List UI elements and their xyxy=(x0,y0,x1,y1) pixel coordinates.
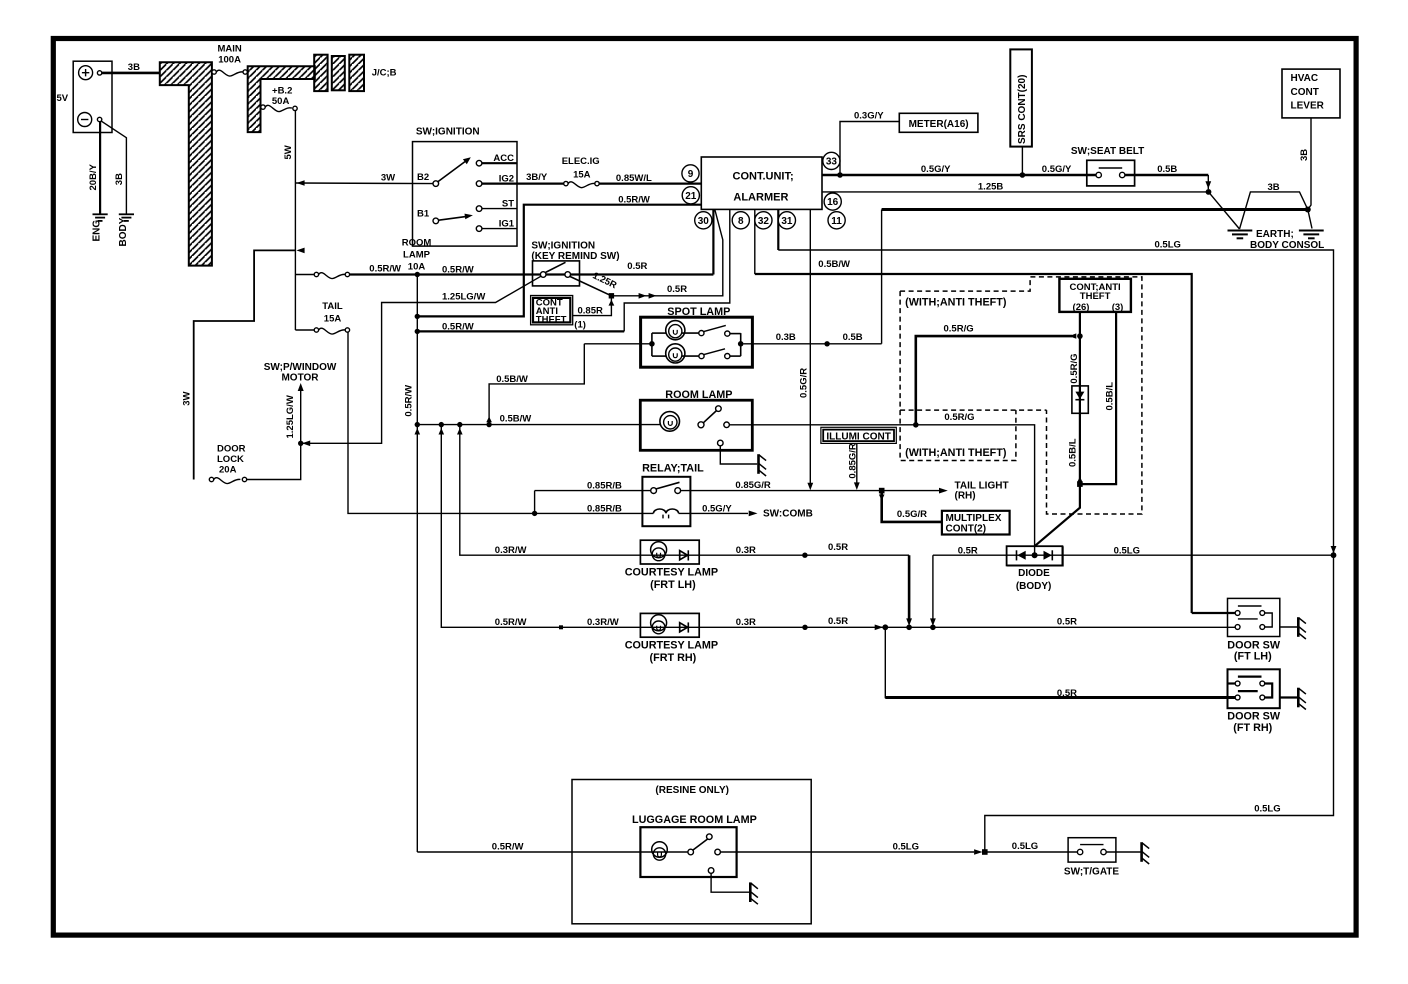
wire 20B/Y to ENG ground xyxy=(99,122,101,214)
ground sw t/gate xyxy=(1142,842,1150,864)
svg-text:DOOR SW: DOOR SW xyxy=(1227,711,1281,723)
svg-text:1.25LG/W: 1.25LG/W xyxy=(442,292,485,303)
svg-text:0.5LG: 0.5LG xyxy=(1114,545,1140,556)
svg-text:0.85R/B: 0.85R/B xyxy=(587,503,622,514)
svg-text:3W: 3W xyxy=(381,173,395,184)
pin stubs bottom xyxy=(754,209,756,274)
svg-text:IG2: IG2 xyxy=(499,174,514,185)
svg-text:33: 33 xyxy=(826,156,838,167)
diode unit DIODE BODY xyxy=(1007,546,1063,565)
wire tail fuse to relay coil 0.85R/B xyxy=(348,332,653,513)
svg-text:0.5R: 0.5R xyxy=(958,545,978,556)
svg-text:0.5G/Y: 0.5G/Y xyxy=(921,164,951,175)
lamp COURTESY LAMP FRT LH xyxy=(640,540,699,564)
svg-text:0.5LG: 0.5LG xyxy=(1012,841,1038,852)
svg-text:10A: 10A xyxy=(408,262,426,273)
fuse +B.2 50A xyxy=(261,105,265,109)
ground room lamp xyxy=(759,454,767,476)
svg-text:(BODY): (BODY) xyxy=(1016,581,1052,592)
svg-text:SRS CONT(20): SRS CONT(20) xyxy=(1017,75,1028,144)
svg-text:LEVER: LEVER xyxy=(1291,101,1325,112)
pin 16 xyxy=(824,193,841,210)
wire 0.5B/W pin 32 to door sw xyxy=(755,274,1192,613)
svg-text:11: 11 xyxy=(831,216,842,227)
svg-text:COURTESY LAMP: COURTESY LAMP xyxy=(625,566,718,578)
wire 1.25R diagonal xyxy=(570,276,612,295)
svg-text:LOCK: LOCK xyxy=(217,454,244,465)
wire 1.25LG/W to key remind sw xyxy=(301,276,541,443)
svg-text:CONT.UNIT;: CONT.UNIT; xyxy=(733,171,794,183)
svg-text:0.5R/W: 0.5R/W xyxy=(618,195,650,206)
wire 0.5R/G thick L xyxy=(916,336,1072,425)
wire 0.3G/Y to meter xyxy=(840,122,899,176)
switch SW;T/GATE xyxy=(1068,838,1116,862)
svg-text:(RESINE ONLY): (RESINE ONLY) xyxy=(655,785,729,796)
wire 0.5R/W to pin 8 xyxy=(415,329,420,334)
svg-text:ALARMER: ALARMER xyxy=(733,192,788,204)
svg-text:SW:COMB: SW:COMB xyxy=(763,509,813,520)
module SRS CONT(20) xyxy=(1010,49,1032,146)
svg-text:B2: B2 xyxy=(417,172,429,183)
fuse ROOM LAMP 10A xyxy=(295,274,314,276)
svg-text:0.85G/R: 0.85G/R xyxy=(847,443,858,479)
svg-text:0.5R: 0.5R xyxy=(627,261,647,272)
wire 0.5R/W vertical feed xyxy=(416,275,418,853)
svg-text:(FT LH): (FT LH) xyxy=(1234,651,1272,663)
svg-text:0.5R/W: 0.5R/W xyxy=(495,617,527,628)
node 0.5LG right xyxy=(1331,552,1337,558)
svg-text:ST: ST xyxy=(502,199,514,210)
svg-text:31: 31 xyxy=(781,216,793,227)
svg-text:0.3B: 0.3B xyxy=(776,332,796,343)
unit CONT.UNIT ALARMER xyxy=(701,157,822,209)
svg-text:ELEC.IG: ELEC.IG xyxy=(562,156,600,167)
svg-text:CONT: CONT xyxy=(1291,87,1319,98)
svg-text:20B/Y: 20B/Y xyxy=(88,163,99,190)
wire 3W to ignition B2 xyxy=(295,182,435,185)
wire 0.85R xyxy=(572,296,612,316)
svg-text:LUGGAGE ROOM LAMP: LUGGAGE ROOM LAMP xyxy=(632,814,757,826)
svg-text:COURTESY LAMP: COURTESY LAMP xyxy=(625,639,718,651)
svg-text:DOOR: DOOR xyxy=(217,444,246,455)
svg-text:SW;IGNITION: SW;IGNITION xyxy=(416,127,480,138)
svg-text:3B: 3B xyxy=(1268,182,1280,193)
svg-text:16: 16 xyxy=(827,197,839,208)
wire to t/gate xyxy=(985,851,1078,853)
node 0.85R junction xyxy=(609,293,614,298)
fusible link bus 2 xyxy=(248,66,315,132)
battery plus terminal xyxy=(79,66,93,80)
earth right BODY CONSOL xyxy=(1308,210,1312,229)
svg-text:(1): (1) xyxy=(574,319,586,330)
wire to courtesy LH row xyxy=(460,425,909,556)
pin 8 xyxy=(732,212,749,229)
node multiplex junction xyxy=(879,488,885,494)
svg-text:ENG: ENG xyxy=(92,220,103,242)
fuse ELEC.IG 15A xyxy=(564,181,568,185)
svg-text:1.25LG/W: 1.25LG/W xyxy=(285,395,296,438)
lamp COURTESY LAMP FRT RH xyxy=(640,613,699,637)
earth left xyxy=(1209,192,1240,229)
wire 0.5B/W to spot lamp xyxy=(489,344,584,425)
relay coil xyxy=(653,509,678,513)
module MULTIPLEX CONT(2) xyxy=(942,511,1010,535)
svg-text:SW;SEAT BELT: SW;SEAT BELT xyxy=(1071,146,1144,157)
svg-text:0.85W/L: 0.85W/L xyxy=(616,173,652,184)
svg-text:3B: 3B xyxy=(1299,149,1310,161)
svg-text:LAMP: LAMP xyxy=(403,250,431,261)
svg-text:3B: 3B xyxy=(114,173,125,185)
wire 3B hvac xyxy=(1308,118,1311,210)
svg-text:1.25B: 1.25B xyxy=(978,182,1003,193)
svg-text:0.3R/W: 0.3R/W xyxy=(587,617,619,628)
svg-text:0.5G/R: 0.5G/R xyxy=(897,509,927,520)
svg-text:MAIN: MAIN xyxy=(217,44,241,55)
svg-text:MULTIPLEX: MULTIPLEX xyxy=(946,513,1002,524)
wire 0.85W/L to pin 9 xyxy=(599,183,701,185)
wire battery to bus 3B xyxy=(102,72,160,75)
wire LH row drop to RH row xyxy=(908,555,911,621)
wire 5W vertical xyxy=(294,111,296,330)
svg-text:BODY CONSOL: BODY CONSOL xyxy=(1250,240,1324,251)
svg-text:0.5R: 0.5R xyxy=(1057,688,1077,699)
svg-text:METER(A16): METER(A16) xyxy=(909,119,969,130)
svg-text:THEFT: THEFT xyxy=(1080,291,1111,302)
svg-text:0.5G/Y: 0.5G/Y xyxy=(1042,164,1072,175)
svg-text:0.85G/R: 0.85G/R xyxy=(735,480,771,491)
svg-text:0.5R: 0.5R xyxy=(667,284,687,295)
spot lamp lower bulb + switch xyxy=(652,355,666,357)
pin 9 xyxy=(682,165,699,182)
wire 0.5LG pin 31 xyxy=(778,250,1333,852)
svg-text:0.5G/R: 0.5G/R xyxy=(799,368,810,398)
svg-text:J/C;B: J/C;B xyxy=(372,68,397,79)
svg-text:0.3R/W: 0.3R/W xyxy=(495,545,527,556)
wire pin 3 down xyxy=(1080,312,1116,484)
ground luggage room lamp xyxy=(750,882,758,904)
wire 0.5R to door sw ft lh xyxy=(885,626,1235,628)
svg-text:0.3R: 0.3R xyxy=(736,617,756,628)
svg-text:0.5B/L: 0.5B/L xyxy=(1105,382,1116,411)
fuse DOOR LOCK 20A xyxy=(209,477,213,481)
module HVAC CONT LEVER xyxy=(1282,69,1340,118)
svg-text:100A: 100A xyxy=(218,55,241,66)
svg-text:(26): (26) xyxy=(1073,302,1090,313)
wire 1.25B pin 16 xyxy=(822,191,1209,193)
svg-text:0.5R/W: 0.5R/W xyxy=(492,841,524,852)
svg-text:0.5B/W: 0.5B/W xyxy=(818,259,850,270)
svg-text:CONT(2): CONT(2) xyxy=(946,523,987,534)
module CONT;ANTI THEFT 26 3 xyxy=(1059,279,1131,312)
wire 0.5R/W pin 21 xyxy=(417,205,701,317)
wire 0.3B 0.5B xyxy=(744,343,882,345)
svg-text:(3): (3) xyxy=(1112,302,1124,313)
module METER(A16) xyxy=(899,113,978,132)
pin 21 xyxy=(682,187,699,204)
svg-text:0.85R/B: 0.85R/B xyxy=(587,481,622,492)
svg-text:B1: B1 xyxy=(417,209,430,220)
fusible link bus 1 xyxy=(160,62,212,265)
svg-text:3B: 3B xyxy=(128,62,140,73)
wire door lock fuse output xyxy=(247,443,301,479)
svg-text:IG1: IG1 xyxy=(499,219,515,230)
wire to courtesy RH row xyxy=(441,425,885,628)
ground ENG xyxy=(93,214,108,221)
node p/window junction xyxy=(298,441,303,446)
svg-text:30: 30 xyxy=(698,216,710,227)
svg-text:15A: 15A xyxy=(573,169,591,180)
switch DOOR SW FT LH xyxy=(1192,612,1236,614)
svg-text:ILLUMI CONT: ILLUMI CONT xyxy=(826,431,890,442)
svg-text:0.5R: 0.5R xyxy=(828,616,848,627)
svg-text:SW;IGNITION: SW;IGNITION xyxy=(531,240,595,251)
svg-text:0.5LG: 0.5LG xyxy=(893,841,919,852)
pin 31 xyxy=(778,212,795,229)
svg-text:0.5B: 0.5B xyxy=(1157,164,1177,175)
ground door sw ft rh xyxy=(1298,688,1306,710)
diode anti-theft xyxy=(1072,386,1088,413)
svg-text:0.5R/G: 0.5R/G xyxy=(944,323,974,334)
svg-text:SW;T/GATE: SW;T/GATE xyxy=(1064,867,1120,878)
svg-text:0.5B/L: 0.5B/L xyxy=(1067,438,1078,467)
svg-text:THEFT: THEFT xyxy=(536,314,567,325)
svg-text:(WITH;ANTI THEFT): (WITH;ANTI THEFT) xyxy=(905,447,1007,459)
svg-text:TAIL: TAIL xyxy=(322,301,343,312)
wire 3W branch to door lock fuse xyxy=(296,248,304,254)
ground BODY xyxy=(119,214,134,221)
battery minus terminal xyxy=(78,113,92,127)
wire 0.5R from key remind junction to cont unit xyxy=(611,209,722,295)
lamp unit LUGGAGE ROOM LAMP xyxy=(572,780,811,924)
svg-text:(FRT RH): (FRT RH) xyxy=(650,652,697,664)
svg-text:SW;P/WINDOW: SW;P/WINDOW xyxy=(264,362,337,373)
svg-text:20A: 20A xyxy=(219,465,237,476)
svg-text:DIODE: DIODE xyxy=(1018,568,1050,579)
junction block J/C;B xyxy=(314,55,327,91)
svg-text:RELAY;TAIL: RELAY;TAIL xyxy=(642,463,704,475)
svg-text:(FRT LH): (FRT LH) xyxy=(650,579,696,591)
svg-text:(FT RH): (FT RH) xyxy=(1233,722,1272,734)
svg-text:0.5B/W: 0.5B/W xyxy=(496,374,528,385)
svg-text:0.5R: 0.5R xyxy=(1057,616,1077,627)
wire 0.5G/Y from pin 33 xyxy=(822,174,1096,177)
svg-text:(RH): (RH) xyxy=(955,491,976,502)
svg-text:0.3R: 0.3R xyxy=(736,545,756,556)
wire to diode body xyxy=(1035,484,1080,546)
wire 0.5R/W fuse row xyxy=(350,273,714,275)
fuse TAIL 15A xyxy=(295,329,314,331)
svg-text:0.5R: 0.5R xyxy=(828,542,848,553)
wire 0.5B xyxy=(1125,174,1208,177)
svg-text:8: 8 xyxy=(738,216,744,227)
svg-text:EARTH;: EARTH; xyxy=(1256,229,1294,240)
svg-text:5W: 5W xyxy=(283,145,294,159)
svg-text:3W: 3W xyxy=(181,392,192,406)
svg-text:(WITH;ANTI THEFT): (WITH;ANTI THEFT) xyxy=(905,296,1007,308)
svg-text:0.5R/W: 0.5R/W xyxy=(442,265,474,276)
arrow 0.5G/R pin 11 end xyxy=(807,483,813,491)
module CONT ANTI THEFT xyxy=(531,296,573,325)
svg-text:0.3G/Y: 0.3G/Y xyxy=(854,111,884,122)
pin 11 xyxy=(828,212,845,229)
svg-text:5V: 5V xyxy=(57,93,69,104)
arrow tail light xyxy=(939,488,948,494)
pin 33 xyxy=(823,152,840,169)
ground door sw ft lh xyxy=(1298,617,1306,639)
pin 32 xyxy=(755,212,772,229)
wire 0.5R to pin 30 xyxy=(712,209,714,274)
svg-text:21: 21 xyxy=(685,191,697,202)
svg-text:15A: 15A xyxy=(324,314,342,325)
svg-text:BODY: BODY xyxy=(118,217,129,246)
wire 3B/Y xyxy=(517,183,564,185)
svg-text:0.5R/W: 0.5R/W xyxy=(369,264,401,275)
wire 0.5R to door sw ft rh xyxy=(885,627,1235,697)
svg-text:0.5LG: 0.5LG xyxy=(1155,239,1181,250)
svg-text:32: 32 xyxy=(758,216,770,227)
svg-text:ACC: ACC xyxy=(493,153,514,164)
svg-text:0.5B/W: 0.5B/W xyxy=(500,414,532,425)
switch DOOR SW FT RH xyxy=(1228,669,1280,708)
node row 0.5B/W xyxy=(417,424,660,426)
svg-text:DOOR SW: DOOR SW xyxy=(1227,639,1281,651)
svg-text:MOTOR: MOTOR xyxy=(281,373,319,384)
wire room lamp to diode body xyxy=(916,425,1035,555)
module ILLUMI CONT xyxy=(821,427,896,443)
svg-text:0.5R/G: 0.5R/G xyxy=(944,412,974,423)
svg-text:0.5R/G: 0.5R/G xyxy=(1069,353,1080,383)
dashed box WITH;ANTI THEFT upper xyxy=(900,277,1142,514)
wire to SW P/WINDOW MOTOR xyxy=(300,387,302,444)
svg-text:9: 9 xyxy=(688,169,694,180)
wire 0.85R/B link xyxy=(534,491,536,514)
battery B1 xyxy=(73,61,112,132)
svg-text:0.5LG: 0.5LG xyxy=(1254,804,1280,815)
svg-text:0.5R/W: 0.5R/W xyxy=(404,385,415,417)
fuse MAIN 100A xyxy=(212,70,216,74)
pin 30 xyxy=(695,212,712,229)
svg-text:0.5B: 0.5B xyxy=(843,332,863,343)
svg-text:3B/Y: 3B/Y xyxy=(526,172,548,183)
spot lamp upper bulb + switch xyxy=(652,332,666,334)
svg-text:50A: 50A xyxy=(272,96,290,107)
wire 3B to BODY ground xyxy=(101,121,126,213)
svg-text:0.85R: 0.85R xyxy=(578,305,603,316)
wire pin16 thick to earth xyxy=(882,208,1308,211)
wire pin 26 down xyxy=(1079,312,1081,386)
svg-text:0.5R/W: 0.5R/W xyxy=(442,322,474,333)
svg-text:HVAC: HVAC xyxy=(1291,73,1319,84)
wire 3B step xyxy=(1240,192,1308,229)
svg-text:0.5G/Y: 0.5G/Y xyxy=(702,503,732,514)
